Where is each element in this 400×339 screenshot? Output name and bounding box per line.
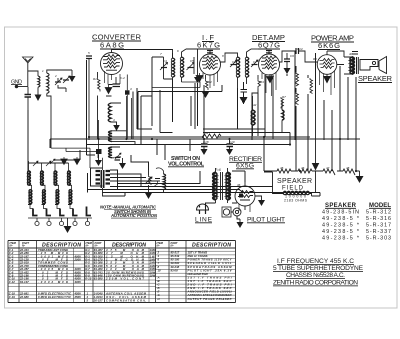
tube pin leads rectifier: [239, 204, 250, 212]
tube V4 power 6K6G: [317, 51, 337, 74]
ground arrow under IF resistor: [202, 92, 209, 98]
svg-text:49-238-5 *: 49-238-5 *: [322, 229, 360, 235]
power transformer T3: [213, 168, 230, 203]
svg-text:C14: C14: [297, 47, 303, 51]
wire row2 bottom: [28, 204, 72, 206]
filter capacitor C18: [201, 140, 208, 155]
wire T2 to det grid: [251, 48, 266, 50]
speaker model table: [322, 203, 391, 242]
wire left vertical x86: [87, 60, 96, 155]
svg-text:49-238-5 *: 49-238-5 *: [322, 223, 360, 229]
wire mid verticals x157 x165: [157, 139, 190, 160]
svg-text:22-680: 22-680: [19, 295, 29, 299]
label SPEAKER: [358, 74, 392, 83]
svg-text:2: 2: [54, 74, 57, 78]
wire choke bottom: [190, 96, 192, 126]
wire bus 129: [203, 128, 265, 130]
electrolytic capacitor blob: [96, 120, 102, 158]
svg-text:R7: R7: [282, 95, 286, 99]
capacitor under converter: [109, 77, 121, 87]
coil bank row1 bottoms to row2: [29, 185, 72, 189]
vol control coil: [156, 168, 166, 193]
svg-text:CHASSIS №5528 A.C.: CHASSIS №5528 A.C.: [286, 272, 345, 279]
trimmer capacitor ant 2: [63, 76, 70, 83]
trimmer capacitor ant 1: [55, 78, 66, 88]
svg-text:63-147: 63-147: [20, 280, 29, 284]
svg-text:COMPENSATOR COIL: COMPENSATOR COIL: [106, 299, 146, 303]
wafer switch: [96, 170, 126, 196]
ground arrow under volume control: [145, 192, 153, 199]
wire rect tube top: [232, 171, 245, 182]
wire avc bus: [138, 83, 222, 129]
wire power area verticals: [296, 53, 356, 171]
wire converter plate top: [112, 50, 173, 59]
svg-text:ZENITH RADIO CORPORATION: ZENITH RADIO CORPORATION: [273, 280, 358, 287]
svg-text:5-R-337: 5-R-337: [366, 229, 391, 235]
wire gnd to antenna lead: [17, 86, 29, 88]
capacitor C-1 antenna series: [25, 87, 32, 111]
svg-text:C-19: C-19: [9, 295, 16, 299]
tube pin leads IF: [203, 71, 218, 88]
wire right bus drop: [263, 137, 265, 171]
tone capacitor near vol: [155, 179, 161, 187]
svg-text:C5: C5: [190, 59, 194, 63]
tube V5 rectifier 6X5G: [235, 182, 255, 210]
ground bus under coil bank: [28, 217, 92, 219]
choke coil avc: [282, 100, 284, 133]
label PILOT LIGHT: [247, 217, 285, 224]
wire bus 132.5: [203, 132, 290, 134]
resistor det lower: [281, 97, 284, 109]
wire pilot area: [231, 212, 240, 219]
wire B+ bus upper: [89, 136, 310, 138]
svg-text:20-157: 20-157: [93, 299, 103, 303]
tiny part number labels: [42, 47, 353, 187]
wire power plate to output transformer: [327, 51, 344, 65]
B+ resistor chain: [264, 169, 360, 175]
ground arrow under pilot: [237, 219, 244, 228]
ground arrow right of trimmers: [69, 70, 76, 82]
stage label CONVERTER 6A8G: [92, 33, 142, 50]
ground arrow under L1: [35, 95, 42, 102]
label T-6 transformer: [215, 168, 221, 172]
oscillator coil L3: [108, 103, 121, 125]
ground arrow right of rectifier: [255, 196, 265, 206]
cathode bypass capacitor blob: [125, 75, 130, 140]
wire antenna stem lower: [28, 110, 69, 171]
wire coil bank top bus: [29, 150, 81, 163]
wire to vol control: [125, 155, 149, 196]
grid cap capacitor converter: [86, 56, 92, 140]
stage label POWER.AMP 6K6G: [311, 34, 354, 51]
svg-text:2183 OHMS: 2183 OHMS: [284, 199, 308, 203]
svg-text:40: 40: [349, 52, 353, 56]
volume control resistor: [145, 170, 152, 192]
filter capacitor C19: [226, 140, 233, 155]
svg-text:R-10: R-10: [85, 277, 92, 281]
capacitor above switch: [115, 158, 121, 161]
wire det area verticals: [252, 51, 295, 140]
svg-text:C4: C4: [163, 59, 167, 63]
stage label DET.AMP 6Q7G: [252, 33, 285, 50]
ground arrow right of det: [284, 68, 291, 74]
resistor right chain vertical 2: [310, 78, 313, 94]
svg-text:93-08: 93-08: [171, 268, 179, 272]
svg-text:SPEAKER: SPEAKER: [358, 74, 392, 83]
label SPEAKER FIELD: [277, 178, 312, 203]
label LINE: [195, 217, 213, 224]
speaker field coil: [273, 172, 312, 196]
wire osc vertical: [106, 95, 112, 97]
svg-text:T≈6: T≈6: [215, 168, 221, 172]
speaker bracket and cone: [360, 57, 387, 74]
svg-text:R2: R2: [208, 80, 212, 84]
svg-text:48: 48: [346, 166, 350, 170]
svg-text:C18: C18: [203, 140, 209, 144]
svg-text:C19: C19: [229, 140, 235, 144]
resistor under IF tube: [206, 75, 209, 90]
B+ dropping resistor horizontal: [203, 134, 221, 138]
resistor right chain vertical 1: [296, 72, 299, 86]
wire T1 bottom: [152, 57, 200, 88]
svg-text:10W: 10W: [150, 274, 156, 278]
ground arrow under power tube: [323, 76, 331, 84]
ground arrow end of chain: [356, 171, 364, 183]
wire bus 139: [50, 139, 360, 148]
capacitor right of det: [284, 53, 290, 68]
IF transformer T1: [152, 49, 194, 82]
ground arrow under det tube: [267, 74, 274, 83]
wire speaker field box: [264, 172, 320, 196]
grid cap IF tube: [207, 51, 213, 53]
svg-text:5-R-316: 5-R-316: [366, 216, 391, 222]
main bus wires: [28, 51, 360, 219]
svg-text:63-580: 63-580: [94, 277, 103, 281]
svg-text:5-R-303: 5-R-303: [366, 236, 391, 242]
coupling capacitor C-14: [296, 48, 299, 54]
svg-text:DESCRIPTION: DESCRIPTION: [192, 242, 231, 248]
wire IF plate: [221, 53, 238, 62]
ground arrow above switch: [95, 155, 102, 166]
output transformer T4: [344, 52, 358, 75]
wire osc verticals: [103, 96, 132, 170]
resistor R1 under converter: [98, 72, 101, 139]
IF transformer T2: [230, 49, 258, 88]
svg-text:C-2: C-2: [120, 76, 125, 80]
svg-text:C9: C9: [290, 54, 294, 58]
resistor right chain vertical 1b: [296, 92, 299, 105]
oscillator coil L4: [109, 131, 136, 145]
svg-text:400V: 400V: [74, 280, 83, 284]
ground arrow under T2 cap: [240, 92, 247, 104]
svg-text:SPEAKER: SPEAKER: [277, 178, 312, 185]
svg-text:R1: R1: [93, 77, 97, 81]
trimmer L hooks under row2: [33, 207, 91, 216]
coil L1 antenna primary: [28, 71, 40, 95]
band switch coil bank row 2: [29, 190, 72, 204]
svg-text:200V: 200V: [74, 258, 83, 262]
parts table: [8, 241, 236, 303]
label GND: [11, 80, 22, 86]
ground arrow bus: [64, 218, 72, 233]
ground arrow right above switch: [119, 158, 126, 169]
ground arrow under osc coil: [113, 125, 120, 131]
tube V1 converter 6A8G: [101, 50, 123, 75]
band switch coil bank row 1: [28, 171, 71, 185]
svg-text:49-238-5 *: 49-238-5 *: [322, 236, 360, 242]
link wires coil bank to switch: [51, 148, 98, 168]
svg-text:I.F FREQUENCY 455 K.C: I.F FREQUENCY 455 K.C: [277, 258, 354, 265]
svg-text:6A8G: 6A8G: [100, 41, 124, 50]
cathode resistor power tube: [326, 74, 328, 76]
svg-text:42: 42: [253, 103, 257, 107]
label SWITCH ON VOL.CONTROL: [168, 156, 205, 168]
capacitor under T2: [241, 90, 248, 93]
wire switch horizontals right: [88, 168, 156, 193]
tube pin leads power: [320, 71, 335, 95]
junction dots: [88, 136, 357, 172]
wire det plate to coupling cap: [280, 51, 297, 62]
diode load resistor under det: [258, 75, 261, 93]
wire coupling cap to power grid: [299, 51, 318, 62]
coil bank leads row1 tops: [29, 161, 69, 171]
svg-text:C7: C7: [253, 60, 257, 64]
coil L2 antenna secondary: [47, 70, 57, 148]
antenna: [23, 57, 34, 86]
svg-text:8 MFD ELECTROLYTIC: 8 MFD ELECTROLYTIC: [38, 295, 72, 299]
ground arrow T1 right: [186, 49, 201, 83]
pilot light assembly: [222, 207, 241, 217]
svg-text:41: 41: [205, 131, 209, 135]
svg-text:FIELD: FIELD: [282, 186, 304, 192]
svg-text:OUTPUT TRANS PRI&SEC: OUTPUT TRANS PRI&SEC: [188, 297, 233, 301]
svg-text:47: 47: [326, 166, 330, 170]
svg-text:5 TUBE SUPERHETERODYNE: 5 TUBE SUPERHETERODYNE: [273, 265, 364, 272]
wire right low horizontals: [88, 171, 321, 214]
svg-text:5-R-317: 5-R-317: [366, 223, 391, 229]
svg-text:49-238-5 *: 49-238-5 *: [322, 216, 360, 222]
terminal circles: [35, 218, 90, 226]
title block: [273, 258, 364, 287]
svg-text:45: 45: [280, 166, 284, 170]
svg-text:C6: C6: [232, 60, 236, 64]
stage label RECTIFIER 6X5G: [229, 156, 262, 170]
wire drops T2 area: [204, 75, 265, 137]
oscillator coil L5: [109, 147, 122, 159]
ground arrow mid right onto chain: [312, 110, 320, 193]
wire det resistor bottom: [258, 75, 273, 139]
ground terminal dot: [15, 85, 18, 88]
ground arrow above coil bank 2: [74, 157, 80, 165]
tube pin leads converter: [105, 71, 121, 85]
svg-text:49-238-5IN: 49-238-5IN: [322, 210, 359, 216]
svg-text:250V: 250V: [74, 295, 83, 299]
svg-text:46: 46: [301, 166, 305, 170]
ground arrow under IF tube left: [196, 73, 203, 82]
stage label I.F 6K7G: [197, 33, 220, 50]
svg-text:C-12: C-12: [9, 280, 16, 284]
svg-text:10: 10: [158, 268, 162, 272]
line cord plug: [197, 204, 209, 214]
ground arrow under converter cap: [105, 85, 112, 94]
tube V3 det 6Q7G: [259, 51, 280, 76]
grid cap det tube: [266, 51, 272, 53]
wire trimmer top bus: [57, 70, 72, 92]
svg-text:250M VOL.CONT: 250M VOL.CONT: [105, 277, 144, 281]
wire drops from T1 area: [137, 79, 198, 133]
trimmer arrows on coil tops: [33, 159, 55, 166]
wire IF area verticals: [133, 57, 173, 145]
svg-text:R4: R4: [260, 80, 264, 84]
ground arrow above coil bank 1: [61, 157, 67, 165]
choke coil det plate: [251, 96, 255, 136]
wire bus 144.5: [87, 133, 291, 145]
svg-text:5-R-312: 5-R-312: [366, 210, 391, 216]
note manual automatic switch: [100, 205, 158, 219]
tube pin leads det: [262, 73, 276, 97]
tube V2 IF 6K7G: [200, 51, 221, 76]
